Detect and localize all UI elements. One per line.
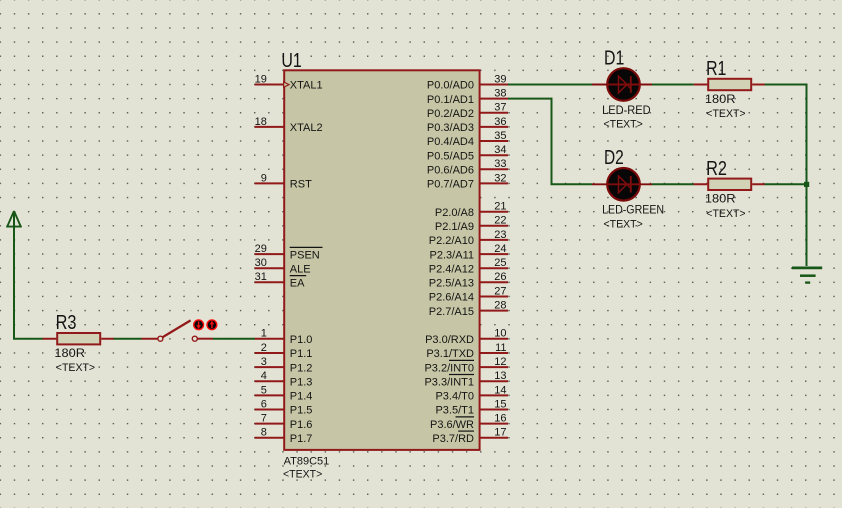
U1 pin 21 (P2.0/A8) (435, 201, 508, 219)
svg-text:27: 27 (494, 285, 506, 297)
U1 pin 4 (P1.3) (255, 370, 313, 388)
svg-text:10: 10 (494, 328, 506, 340)
switch toggle buttons (up/down arrows) (194, 320, 217, 330)
U1 pin 17 (P3.7/RD) (432, 427, 508, 445)
wire: power rail to R3 (14, 214, 43, 339)
svg-text:AT89C51: AT89C51 (284, 455, 330, 467)
svg-text:25: 25 (494, 257, 506, 269)
svg-text:33: 33 (494, 158, 506, 170)
U1 pin 7 (P1.6) (255, 413, 313, 431)
svg-text:16: 16 (494, 413, 506, 425)
wire: vertical rail to ground (806, 84, 808, 267)
U1 pin 34 (P0.5/AD5) (427, 144, 508, 162)
U1 pin 30 (ALE) (255, 257, 311, 275)
U1 pin 23 (P2.2/A10) (429, 229, 508, 247)
svg-text:P0.6/AD6: P0.6/AD6 (427, 165, 474, 177)
svg-text:180R: 180R (705, 194, 736, 206)
svg-text:1: 1 (261, 328, 267, 340)
svg-text:36: 36 (494, 116, 506, 128)
U1 pin 31 (EA) (255, 271, 307, 289)
svg-text:4: 4 (261, 370, 267, 382)
svg-text:P3.7/RD: P3.7/RD (432, 433, 474, 445)
U1 pin 22 (P2.1/A9) (435, 215, 508, 233)
svg-text:28: 28 (494, 300, 506, 312)
U1 pin 24 (P2.3/A11) (430, 243, 508, 261)
LED D1 (LED-RED) (592, 68, 652, 101)
svg-text:P3.2/INT0: P3.2/INT0 (424, 362, 474, 374)
svg-text:38: 38 (494, 88, 506, 100)
svg-text:LED-RED: LED-RED (602, 105, 651, 117)
svg-text:7: 7 (261, 413, 267, 425)
svg-text:P2.5/A13: P2.5/A13 (429, 278, 474, 290)
svg-text:11: 11 (495, 342, 506, 354)
svg-text:D1: D1 (604, 46, 624, 69)
svg-text:D2: D2 (604, 146, 624, 169)
svg-text:P0.2/AD2: P0.2/AD2 (427, 108, 474, 120)
U1 XTAL1 clock input triangle (284, 82, 289, 87)
svg-text:RST: RST (290, 179, 312, 191)
svg-text:XTAL2: XTAL2 (290, 122, 323, 134)
resistor R1 (694, 79, 765, 90)
U1 pin 28 (P2.7/A15) (429, 300, 508, 318)
svg-text:14: 14 (494, 384, 506, 396)
U1 pin 2 (P1.1) (255, 342, 313, 360)
svg-text:35: 35 (494, 130, 506, 142)
svg-text:12: 12 (494, 356, 506, 368)
power symbol (arrow up) (6, 211, 22, 227)
U1 pin 16 (P3.6/WR) (430, 413, 508, 431)
U1 pin 38 (P0.1/AD1) (427, 88, 508, 106)
svg-text:R2: R2 (706, 157, 727, 180)
svg-text:P2.2/A10: P2.2/A10 (429, 235, 474, 247)
svg-text:180R: 180R (705, 94, 736, 106)
svg-text:ALE: ALE (290, 263, 311, 275)
svg-text:P2.4/A12: P2.4/A12 (429, 263, 474, 275)
svg-text:PSEN: PSEN (290, 249, 320, 261)
svg-text:24: 24 (494, 243, 506, 255)
U1 pin 33 (P0.6/AD6) (427, 158, 508, 176)
svg-text:P0.5/AD5: P0.5/AD5 (427, 150, 474, 162)
svg-text:3: 3 (261, 356, 267, 368)
svg-text:21: 21 (494, 201, 506, 213)
U1 pin 11 (P3.1/TXD) (426, 342, 508, 360)
svg-text:39: 39 (494, 73, 506, 85)
U1 pin 35 (P0.4/AD4) (427, 130, 508, 148)
svg-text:37: 37 (494, 102, 506, 114)
svg-text:2: 2 (261, 342, 267, 354)
svg-text:22: 22 (494, 215, 506, 227)
svg-text:17: 17 (494, 427, 506, 439)
svg-text:P3.3/INT1: P3.3/INT1 (424, 376, 474, 388)
svg-text:P3.4/T0: P3.4/T0 (435, 391, 474, 403)
U1 pin 25 (P2.4/A12) (429, 257, 508, 275)
wire: U1 pin 38 to D2 (508, 99, 592, 185)
wire: R2 to vertical rail (764, 183, 806, 185)
svg-text:<TEXT>: <TEXT> (706, 208, 745, 220)
wire: D1 to R1 (652, 84, 694, 86)
U1 pin 5 (P1.4) (255, 384, 313, 402)
svg-text:9: 9 (261, 172, 267, 184)
svg-text:P2.0/A8: P2.0/A8 (435, 207, 474, 219)
svg-text:31: 31 (255, 271, 267, 283)
svg-text:19: 19 (255, 73, 267, 85)
svg-text:P2.6/A14: P2.6/A14 (429, 292, 474, 304)
svg-text:P3.0/RXD: P3.0/RXD (425, 334, 474, 346)
U1 pin 1 (P1.0) (255, 328, 313, 346)
U1 pin 26 (P2.5/A13) (429, 271, 508, 289)
U1 pin 10 (P3.0/RXD) (425, 328, 508, 346)
svg-text:P1.4: P1.4 (290, 391, 313, 403)
svg-text:P0.7/AD7: P0.7/AD7 (427, 179, 474, 191)
U1 pin 8 (P1.7) (255, 427, 313, 445)
U1 pin 39 (P0.0/AD0) (427, 73, 508, 91)
svg-text:P1.7: P1.7 (290, 433, 313, 445)
svg-text:34: 34 (494, 144, 506, 156)
svg-text:P1.0: P1.0 (290, 334, 313, 346)
svg-text:180R: 180R (54, 348, 85, 360)
svg-text:23: 23 (494, 229, 506, 241)
U1 pin 3 (P1.2) (255, 356, 313, 374)
svg-text:6: 6 (261, 398, 267, 410)
svg-text:P3.5/T1: P3.5/T1 (435, 405, 474, 417)
switch SW (interactive) (142, 320, 213, 341)
svg-text:15: 15 (494, 398, 506, 410)
svg-text:P2.7/A15: P2.7/A15 (429, 306, 474, 318)
LED D2 (LED-GREEN) (592, 168, 652, 201)
U1 pin 19 (XTAL1) (255, 73, 323, 91)
svg-text:P0.4/AD4: P0.4/AD4 (427, 136, 474, 148)
svg-text:P1.5: P1.5 (290, 405, 313, 417)
wire: switch to U1 pin 1 (213, 338, 255, 340)
svg-text:30: 30 (255, 257, 267, 269)
wire: D2 to R2 (652, 183, 694, 185)
svg-text:5: 5 (261, 384, 267, 396)
svg-text:8: 8 (261, 427, 267, 439)
svg-text:<TEXT>: <TEXT> (56, 362, 95, 374)
svg-text:<TEXT>: <TEXT> (706, 108, 745, 120)
wire: R1 to vertical rail (764, 84, 806, 86)
svg-text:P1.3: P1.3 (290, 376, 313, 388)
svg-text:<TEXT>: <TEXT> (283, 468, 322, 480)
U1 pin 36 (P0.3/AD3) (427, 116, 508, 134)
svg-text:R1: R1 (706, 57, 726, 80)
svg-text:P2.1/A9: P2.1/A9 (435, 221, 474, 233)
ground symbol (792, 268, 822, 283)
wire: U1 pin 39 to D1 (508, 84, 592, 86)
U1 pin 13 (P3.3/INT1) (424, 370, 508, 388)
svg-text:P1.6: P1.6 (290, 419, 313, 431)
svg-text:LED-GREEN: LED-GREEN (602, 205, 664, 217)
U1 pin 15 (P3.5/T1) (435, 398, 508, 416)
svg-text:P3.1/TXD: P3.1/TXD (426, 348, 474, 360)
wire: R3 to switch (113, 338, 141, 340)
U1 pin 27 (P2.6/A14) (429, 285, 508, 303)
svg-text:29: 29 (255, 243, 267, 255)
U1 pin 29 (PSEN) (255, 243, 323, 261)
U1 pin 18 (XTAL2) (255, 116, 323, 134)
resistor R3 (43, 333, 114, 344)
svg-text:P0.1/AD1: P0.1/AD1 (427, 94, 474, 106)
resistor R2 (694, 179, 765, 190)
svg-text:13: 13 (494, 370, 506, 382)
svg-text:P0.0/AD0: P0.0/AD0 (427, 80, 474, 92)
U1 pin 12 (P3.2/INT0) (424, 356, 508, 374)
U1 pin 37 (P0.2/AD2) (427, 102, 508, 120)
svg-text:18: 18 (255, 116, 267, 128)
svg-text:32: 32 (494, 172, 506, 184)
U1 pin 6 (P1.5) (255, 398, 313, 416)
svg-text:P3.6/WR: P3.6/WR (430, 419, 474, 431)
svg-text:P1.2: P1.2 (290, 362, 313, 374)
svg-text:EA: EA (290, 278, 305, 290)
svg-text:<TEXT>: <TEXT> (604, 219, 643, 231)
svg-text:P2.3/A11: P2.3/A11 (430, 249, 474, 261)
svg-text:XTAL1: XTAL1 (290, 80, 323, 92)
node: wire junction at rail (804, 182, 809, 187)
svg-text:<TEXT>: <TEXT> (604, 119, 643, 131)
svg-text:U1: U1 (281, 49, 301, 72)
svg-text:26: 26 (494, 271, 506, 283)
U1 pin 9 (RST) (255, 172, 312, 190)
U1 pin 32 (P0.7/AD7) (427, 172, 508, 190)
svg-text:R3: R3 (56, 311, 77, 334)
svg-text:P0.3/AD3: P0.3/AD3 (427, 122, 474, 134)
U1 pin 14 (P3.4/T0) (435, 384, 508, 402)
IC U1 body (AT89C51 microcontroller) (284, 70, 479, 450)
svg-text:P1.1: P1.1 (290, 348, 313, 360)
